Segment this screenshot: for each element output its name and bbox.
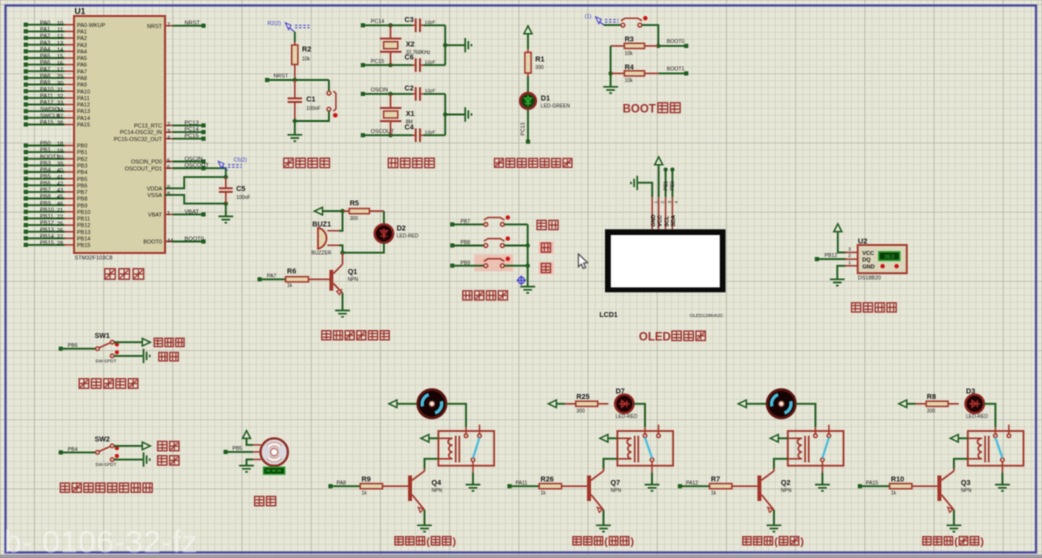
LED D2 LED-RED	[375, 224, 393, 242]
chip U1 pin 43 net PB7 wire	[65, 191, 75, 193]
svg-text:R9: R9	[362, 474, 371, 483]
svg-text:PB12: PB12	[77, 223, 90, 229]
svg-text:100nF: 100nF	[236, 195, 250, 201]
chip U1 pin 37 net SWCLK wire	[65, 117, 75, 119]
wire R1 to D1	[527, 77, 529, 94]
chip U1 pin 3 PC14-OSC32_IN	[165, 131, 173, 133]
wire power to motor FAN2	[746, 403, 767, 405]
svg-text:5: 5	[167, 158, 170, 164]
label pressure-module 薄膜压力检测模块	[60, 483, 69, 492]
svg-text:NPN: NPN	[348, 277, 359, 283]
ground U2	[830, 279, 845, 285]
label relay 继电器加热	[573, 537, 581, 545]
node junction rail PB8	[526, 243, 530, 247]
svg-text:PA2: PA2	[40, 34, 50, 40]
svg-text:b- 0106-32-fz: b- 0106-32-fz	[4, 524, 198, 558]
svg-text:SW-SPDT: SW-SPDT	[95, 359, 116, 364]
svg-text:PA9: PA9	[77, 83, 87, 89]
svg-text:OLED: OLED	[639, 331, 671, 343]
svg-text:PC14: PC14	[185, 127, 199, 133]
wire right rail X1	[444, 94, 446, 135]
LED D3 LED-RED	[966, 395, 984, 413]
power terminal SW1	[142, 338, 150, 346]
wire U2 GND to ground	[837, 266, 846, 279]
svg-text:PA0-WKUP: PA0-WKUP	[77, 23, 106, 29]
terminal PA8	[328, 484, 332, 488]
svg-text:NRST: NRST	[274, 74, 289, 80]
terminal PB8	[450, 243, 454, 247]
svg-text:NPN: NPN	[611, 488, 622, 494]
terminal BOOT0	[684, 44, 688, 48]
svg-text:21: 21	[57, 208, 63, 214]
wire power to relay coil	[429, 437, 439, 439]
svg-text:300: 300	[927, 409, 936, 415]
label independent-keys 独立按键	[463, 291, 472, 300]
transistor Q4 NPN	[408, 476, 412, 502]
resistor R7 1k	[682, 485, 709, 487]
display LCD1 OLED12864I2C body	[605, 229, 726, 292]
svg-text:PB4: PB4	[77, 170, 87, 176]
resistor R26 1k	[511, 485, 538, 487]
chip U1 pin 4 PC15-OSC32_OUT	[165, 138, 173, 140]
svg-text:PA6: PA6	[77, 63, 87, 69]
node junction crystal top X2	[388, 23, 392, 27]
node junction R4 left	[608, 71, 612, 75]
svg-text:32: 32	[57, 94, 63, 100]
svg-text:VSSA: VSSA	[147, 193, 162, 199]
power terminal relay coil Q4	[421, 435, 429, 443]
push button PB8	[484, 239, 505, 242]
svg-text:SCL: SCL	[664, 215, 670, 227]
crystal X2 32.768KHz	[390, 25, 392, 65]
svg-text:PB10: PB10	[40, 207, 54, 213]
svg-text:18: 18	[57, 142, 63, 148]
U2 display 36.0	[879, 252, 900, 261]
node junction R2/C1	[293, 78, 297, 82]
svg-text:PA8: PA8	[40, 74, 50, 80]
resistor R25 300	[565, 403, 608, 405]
chip U1 STM32F103C8 body	[74, 16, 165, 253]
svg-text:(1): (1)	[585, 14, 592, 20]
motor fan FAN1	[418, 390, 446, 418]
terminal BOOT1	[684, 71, 688, 75]
svg-text:PA4: PA4	[77, 49, 87, 55]
svg-text:PB12: PB12	[40, 221, 54, 227]
wire SW2 lower throw to ground	[114, 459, 143, 461]
svg-text:PC15: PC15	[185, 134, 199, 140]
svg-text:PA11: PA11	[77, 96, 90, 102]
svg-text:11: 11	[57, 28, 63, 34]
chip U1 pin 22 net PB11 wire	[65, 217, 75, 219]
ground Q7 emitter	[596, 525, 611, 531]
wire R4 to BOOT1 terminal	[658, 72, 684, 74]
chip U1 pin 39 net PB3 wire	[65, 164, 75, 166]
svg-text:PB7: PB7	[77, 190, 87, 196]
terminal PC13 bottom	[526, 140, 530, 144]
svg-text:300: 300	[350, 216, 359, 222]
terminal PC15	[361, 63, 365, 67]
svg-text:SW-SPDT: SW-SPDT	[95, 462, 116, 467]
terminal PB1 SCL	[665, 170, 667, 197]
origin marker blue crosshair	[518, 277, 524, 283]
wire boot button to R3	[642, 25, 659, 46]
terminal PB5	[224, 450, 228, 454]
wire PB9 to button	[454, 265, 484, 267]
power terminal OLED VCC	[655, 157, 663, 165]
svg-text:300: 300	[535, 65, 544, 71]
wire power to R8	[907, 403, 916, 405]
svg-text:PA2: PA2	[77, 36, 87, 42]
terminal PB6	[59, 347, 63, 351]
chip U1 pin 34 net SWDIO wire	[65, 110, 75, 112]
ground X1 rail	[465, 107, 471, 122]
chip U1 pin 12 net PA2 wire	[65, 37, 75, 39]
svg-text:PA7: PA7	[40, 67, 50, 73]
svg-text:PC13_RTC: PC13_RTC	[134, 124, 162, 130]
push button PB7	[484, 218, 505, 221]
svg-text:SW2: SW2	[95, 437, 110, 444]
wire D1 to PC13 terminal	[527, 109, 529, 142]
svg-text:PA0: PA0	[40, 20, 50, 26]
svg-text:R2: R2	[302, 45, 311, 54]
svg-text:OSCIN: OSCIN	[371, 88, 388, 94]
svg-text:PA1: PA1	[40, 27, 50, 33]
wire power to R5 node	[323, 210, 343, 212]
terminal PB7	[450, 222, 454, 226]
svg-text:X2: X2	[406, 40, 415, 49]
chip U1 pin 14 net PA4 wire	[65, 50, 75, 52]
svg-text:2: 2	[848, 253, 851, 259]
svg-text:PC15-OSC32_OUT: PC15-OSC32_OUT	[114, 137, 163, 143]
wire servo VCC	[247, 438, 254, 445]
svg-text:VCC: VCC	[862, 251, 874, 257]
svg-text:PA10: PA10	[77, 89, 90, 95]
svg-text:40: 40	[57, 168, 63, 174]
wire above R2	[294, 32, 296, 42]
svg-text:VCC: VCC	[657, 215, 663, 227]
power terminal SW2	[142, 442, 150, 450]
relay switch lever Q7	[645, 438, 652, 458]
node junction C1 bottom	[293, 119, 297, 123]
terminal PA7	[258, 277, 262, 281]
wire servo GND	[247, 459, 254, 465]
label main-chip 主芯片	[105, 269, 116, 280]
svg-text:R26: R26	[541, 474, 554, 483]
svg-text:R5: R5	[350, 199, 359, 208]
svg-text:7: 7	[167, 23, 170, 29]
ground Q1	[335, 311, 350, 317]
label reset-circuit 复位电路	[284, 158, 293, 167]
wire Q7 emitter to ground	[603, 510, 605, 525]
svg-text:10k: 10k	[625, 51, 634, 57]
wire Q3 emitter to ground	[953, 510, 955, 525]
mouse cursor	[578, 254, 587, 269]
svg-text:): )	[800, 536, 804, 548]
svg-text:42: 42	[57, 182, 63, 188]
ground Q4 emitter	[417, 525, 432, 531]
LED D7 LED-RED	[615, 395, 633, 413]
node junction crystal bottom X1	[388, 133, 392, 137]
ground Q3 emitter	[947, 525, 962, 531]
ground BOOT divider	[603, 87, 618, 93]
power terminal servo	[243, 431, 251, 439]
svg-text:45: 45	[57, 195, 63, 201]
wire button PB8 to rail	[504, 245, 527, 247]
push button reset	[328, 80, 330, 91]
svg-text:(: (	[426, 536, 430, 548]
svg-text:PA14: PA14	[77, 116, 90, 122]
chip U1 pin 2 PC13_RTC	[165, 124, 173, 126]
svg-text:PC14-OSC32_IN: PC14-OSC32_IN	[120, 130, 162, 136]
svg-text:R6: R6	[287, 267, 296, 276]
label relay 继电器风扇	[395, 537, 403, 545]
svg-text:PB1: PB1	[663, 181, 669, 191]
svg-text:30: 30	[57, 81, 63, 87]
transistor Q3 NPN	[937, 476, 941, 502]
svg-text:DQ: DQ	[862, 258, 871, 264]
svg-text:X1: X1	[406, 109, 415, 118]
svg-text:VDDA: VDDA	[147, 186, 163, 192]
svg-text:C2: C2	[405, 84, 414, 93]
terminal PA12	[678, 484, 682, 488]
capacitor C1 100nF	[294, 80, 296, 121]
resistor R2 10k	[294, 42, 296, 80]
svg-text:28: 28	[57, 241, 63, 247]
svg-text:19: 19	[57, 148, 63, 154]
wire Q1 emitter to ground	[342, 293, 344, 310]
svg-text:(: (	[774, 536, 778, 548]
node junction rail PB9	[526, 264, 530, 268]
svg-text:PA15: PA15	[77, 123, 90, 129]
chip U1 pin 32 net PA11 wire	[65, 97, 75, 99]
svg-text:PB0: PB0	[77, 144, 87, 150]
svg-text:U1: U1	[75, 6, 86, 16]
svg-text:BOOT0: BOOT0	[185, 237, 204, 243]
svg-text:PB8: PB8	[40, 194, 51, 200]
wire motor to relay contact	[796, 404, 816, 427]
svg-text:3: 3	[848, 246, 851, 252]
svg-text:15: 15	[57, 54, 63, 60]
svg-text:NPN: NPN	[432, 488, 443, 494]
svg-text:16: 16	[57, 61, 63, 67]
ground SW2 sideways	[144, 452, 150, 466]
power terminal relay coil Q2	[770, 435, 778, 443]
svg-text:): )	[980, 536, 984, 548]
wire OSCOUT pin to C5 node	[173, 168, 226, 177]
wire button PB9 to rail	[504, 265, 527, 267]
chip U1 pin 25 net PB12 wire	[65, 224, 75, 226]
highlight+label 减	[539, 262, 555, 274]
wire power to relay coil	[608, 437, 618, 439]
wire R5 to D2	[383, 211, 385, 224]
wire R3 to BOOT0 terminal	[658, 45, 684, 47]
svg-text:PB13: PB13	[40, 227, 54, 233]
wire power to R1	[527, 34, 529, 49]
svg-text:NRST: NRST	[185, 21, 201, 27]
capacitor C6 12pF	[412, 64, 423, 66]
label 未触发	[154, 338, 162, 346]
chip U1 pin 38 net PA15 wire	[65, 124, 75, 126]
push button BOOT	[621, 18, 642, 21]
wire PB8 to button	[454, 245, 484, 247]
highlight+label 加	[539, 242, 555, 254]
power terminal R8 branch	[899, 400, 907, 408]
svg-text:PB7: PB7	[40, 188, 51, 194]
push button PB9	[484, 259, 505, 262]
chip U1 pin 21 net PB10 wire	[65, 211, 75, 213]
wire relay common to ground	[821, 473, 823, 485]
wire SW1 upper throw to power	[114, 341, 142, 343]
wire PB4 to switch SW2	[63, 451, 96, 453]
svg-text:BOOT1: BOOT1	[667, 67, 685, 73]
switch SW2 SW-SPDT	[96, 451, 100, 455]
terminal PB9	[450, 264, 454, 268]
annotation C5(2) pointer	[218, 161, 224, 168]
wire OSCOUT rail	[363, 134, 413, 136]
wire C1 to ground	[294, 121, 296, 135]
ground SW1 sideways	[144, 349, 150, 363]
crystal X1 8M	[390, 94, 392, 135]
svg-text:PB6: PB6	[77, 183, 87, 189]
svg-text:PA6: PA6	[40, 60, 50, 66]
wire buzzer bottom to collector node	[339, 245, 343, 252]
svg-text:GND: GND	[651, 215, 657, 227]
svg-text:41: 41	[57, 175, 63, 181]
svg-text:20: 20	[57, 155, 63, 161]
svg-text:PA7: PA7	[77, 69, 87, 75]
chip U1 pin 8 VSSA	[165, 194, 173, 196]
ground X2 rail	[465, 38, 471, 52]
relay body Q4 module	[438, 431, 494, 466]
svg-text:BOOT0: BOOT0	[667, 39, 685, 45]
svg-text:PB15: PB15	[40, 241, 54, 247]
U2 red indicator dots	[880, 264, 884, 268]
svg-text:Q7: Q7	[611, 478, 621, 487]
svg-text:R7: R7	[711, 474, 720, 483]
capacitor C3 12pF	[412, 24, 423, 26]
highlight behind PB9 button	[474, 255, 513, 272]
svg-text:DS18B20: DS18B20	[858, 276, 881, 282]
svg-text:39: 39	[57, 162, 63, 168]
node junction right rail X2	[443, 43, 447, 47]
label crystal-circuit 晶振电路	[388, 158, 397, 167]
chip U1 pin 19 net PB1 wire	[65, 151, 75, 153]
svg-text:PA8: PA8	[77, 76, 87, 82]
svg-text:10: 10	[57, 21, 63, 27]
svg-text:SDA: SDA	[671, 215, 677, 227]
chip U1 pin 10 net PA0 wire	[65, 24, 75, 26]
svg-text:PB9: PB9	[77, 203, 87, 209]
svg-text:100nF: 100nF	[306, 106, 320, 112]
power terminal R25 branch	[548, 400, 556, 408]
resistor R5 300	[343, 210, 384, 212]
resistor R8 300	[916, 403, 959, 405]
chip U1 pin 40 net PB4 wire	[65, 171, 75, 173]
transistor Q2 NPN	[757, 476, 761, 502]
svg-text:26: 26	[57, 228, 63, 234]
svg-text:OSCOUT_PD1: OSCOUT_PD1	[125, 166, 162, 172]
svg-text:PB11: PB11	[40, 214, 54, 220]
wire OSCIN rail	[363, 93, 413, 95]
svg-text:R10: R10	[891, 474, 904, 483]
svg-text:R3: R3	[625, 35, 634, 44]
chip U1 pin 44 BOOT0	[165, 241, 173, 243]
chip U1 pin 29 net PA8 wire	[65, 77, 75, 79]
svg-text:PB10: PB10	[77, 210, 90, 216]
svg-text:2: 2	[167, 122, 170, 128]
svg-text:R25: R25	[576, 392, 589, 401]
svg-text:25: 25	[57, 221, 63, 227]
svg-text:STM32F103C8: STM32F103C8	[75, 256, 113, 262]
wire right rail X2	[444, 25, 446, 65]
ground below C5	[218, 216, 233, 222]
OLED pin stubs 1-4	[651, 197, 653, 229]
wire boot button left	[604, 24, 621, 26]
power terminal FAN1 branch	[389, 400, 397, 408]
svg-text:29: 29	[57, 74, 63, 80]
svg-text:Q4: Q4	[432, 478, 442, 487]
svg-text:R2(2): R2(2)	[268, 21, 282, 27]
terminal PB0 SDA	[671, 170, 673, 197]
svg-text:OLED12864I2C: OLED12864I2C	[690, 313, 724, 319]
svg-text:NRST: NRST	[147, 24, 163, 30]
svg-text:300: 300	[576, 409, 585, 415]
chip U1 pin 18 net PB0 wire	[65, 145, 75, 147]
svg-text:U2: U2	[858, 236, 868, 245]
label temp-module 测温模块	[852, 303, 861, 312]
svg-text:PA5: PA5	[40, 54, 50, 60]
svg-text:D7: D7	[616, 387, 625, 396]
svg-text:VBAT: VBAT	[148, 213, 163, 219]
resistor R9 1k	[332, 485, 359, 487]
node junction C5 top	[224, 175, 228, 179]
svg-text:BOOT0: BOOT0	[143, 240, 162, 246]
svg-text:1k: 1k	[711, 491, 717, 497]
wire PC14 rail	[363, 24, 413, 26]
wire D2 to collector rail	[343, 243, 384, 253]
chip U1 pin 31 net PA10 wire	[65, 90, 75, 92]
ground Q2 emitter	[767, 525, 782, 531]
node junction crystal top X1	[388, 92, 392, 96]
terminal PB4	[59, 450, 63, 454]
label 有人	[158, 456, 167, 465]
chip U1 pin 17 net PA7 wire	[65, 70, 75, 72]
wire D7 to relay contact	[634, 404, 645, 427]
wire PC15 rail	[363, 64, 413, 66]
wire Q2 emitter to ground	[773, 510, 775, 525]
svg-text:BUZZER: BUZZER	[311, 250, 331, 256]
chip U1 pin 5 OSCIN_PD0	[165, 161, 173, 163]
svg-text:D1: D1	[541, 94, 550, 103]
wire power to relay coil	[778, 437, 788, 439]
chip U1 pin 1 VBAT	[165, 213, 173, 215]
terminal PB12	[815, 257, 819, 261]
chip U1 pin 6 OSCOUT_PD1	[165, 167, 173, 169]
svg-text:OSCIN_PD0: OSCIN_PD0	[131, 160, 162, 166]
svg-text:VBAT: VBAT	[185, 209, 200, 215]
svg-text:PB3: PB3	[40, 161, 51, 167]
svg-text:NPN: NPN	[781, 488, 792, 494]
svg-text:PA1: PA1	[77, 30, 87, 36]
svg-text:PB15: PB15	[77, 243, 90, 249]
wire VCC to U2	[838, 232, 846, 253]
ground below C1	[287, 135, 302, 141]
chip U1 pin 15 net PA5 wire	[65, 57, 75, 59]
label 设置	[537, 220, 546, 229]
ground servo	[239, 466, 254, 472]
capacitor C2 12pF	[412, 93, 423, 95]
svg-text:22: 22	[57, 215, 63, 221]
